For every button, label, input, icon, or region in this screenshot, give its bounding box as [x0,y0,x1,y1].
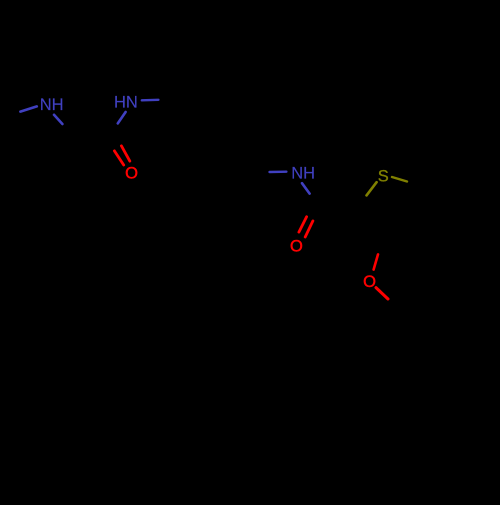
carbonyl 1 C=O double bond line b [121,146,129,161]
bond N-C(=O) (blue half-bond, below HN) [118,112,126,123]
bond Caryl-N (blue half-bond, left of NH) [270,170,287,173]
carbonyl 2 C=O double bond line b [305,221,313,237]
carbonyl 2 C=O double bond line a [299,217,307,232]
bond O-CH2 benzyl (red half-bond, lower-right of ether O) [376,288,388,299]
svg-text:NH: NH [291,164,315,182]
svg-text:HN: HN [114,93,138,111]
svg-text:O: O [363,273,376,291]
bond C3-O ether (red half-bond, above ether O) [374,254,378,269]
svg-text:S: S [378,167,389,185]
bond S-C7a (olive half-bond, right of S) [392,177,407,182]
carbonyl 1 C=O double bond line a [114,151,123,165]
svg-text:O: O [125,165,138,183]
svg-text:O: O [290,237,303,255]
bond N1-C2 (blue half-bond, lower-right of NH) [54,115,62,124]
bond N-C(=O) (blue half-bond, below-right of NH) [302,183,310,193]
svg-text:NH: NH [40,96,64,114]
bond S-C2 (olive half-bond, lower-left of S) [367,182,377,195]
bond N-CH2 (blue half-bond, right of HN) [142,99,159,102]
bond N1-C5 (blue half-bond, left of NH) [20,106,36,111]
